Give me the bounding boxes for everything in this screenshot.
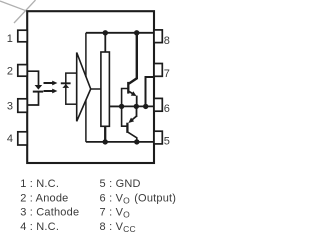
op-amp U1 triangle bbox=[77, 53, 91, 122]
svg-text:4: 4 bbox=[7, 133, 13, 145]
photodiode chip box bbox=[66, 73, 77, 104]
svg-text:2 : Anode: 2 : Anode bbox=[20, 192, 68, 204]
wire pin2 to LED anode bbox=[28, 71, 39, 85]
light arrow 1 bbox=[44, 82, 53, 84]
svg-text:1 : N.C.: 1 : N.C. bbox=[20, 178, 59, 190]
transistor Q1 base bar bbox=[127, 82, 129, 94]
pin 8 box bbox=[154, 30, 162, 43]
node dot base bus bbox=[119, 104, 124, 109]
Q2 collector bbox=[128, 132, 137, 142]
Q1 emitter with arrow bbox=[129, 91, 133, 93]
svg-text:3 : Cathode: 3 : Cathode bbox=[20, 207, 79, 219]
wire R1 tap to base bus bbox=[109, 105, 121, 107]
Q2 base bar bbox=[126, 123, 128, 133]
output wire to pin 6 bbox=[109, 105, 154, 107]
svg-text:3: 3 bbox=[7, 101, 13, 113]
corner ornament gray line 1 bbox=[0, 1, 28, 11]
amp GND tap wire bbox=[85, 100, 87, 142]
base bus vertical wire bbox=[122, 89, 128, 127]
node dot rail-Q2 bbox=[134, 139, 139, 144]
wire LED cathode to pin3 bbox=[28, 92, 39, 105]
Q1 collector bbox=[129, 33, 137, 84]
photodiode PD1 bar bbox=[61, 82, 71, 84]
node dot rail-R1 bbox=[103, 30, 108, 35]
LED cathode bar bbox=[33, 91, 43, 93]
package body bbox=[27, 11, 154, 163]
svg-text:8: 8 bbox=[164, 35, 170, 47]
Q1 emitter drop bbox=[136, 96, 138, 107]
transistor Q2 emitter drop bbox=[136, 106, 138, 117]
pin 6 box bbox=[154, 98, 162, 111]
node dot output-Q bbox=[134, 104, 139, 109]
top Vcc rail bbox=[86, 32, 154, 34]
svg-text:5 : GND: 5 : GND bbox=[100, 178, 141, 190]
bottom GND rail bbox=[86, 141, 154, 143]
node dot output-pin7 bbox=[143, 104, 148, 109]
wire amp output to R1 bbox=[90, 88, 101, 90]
light arrow 2 bbox=[44, 90, 53, 92]
photodiode PD1 triangle bbox=[62, 84, 69, 88]
wire pin7 drop bbox=[146, 77, 155, 106]
svg-text:4 : N.C.: 4 : N.C. bbox=[20, 221, 59, 233]
pin 3 box bbox=[18, 99, 27, 113]
resistor R1 bbox=[101, 52, 110, 126]
pin 1 box bbox=[18, 30, 27, 42]
svg-text:5: 5 bbox=[164, 136, 170, 148]
pin 2 box bbox=[18, 65, 27, 77]
pin 5 box bbox=[154, 131, 162, 144]
pin 7 box bbox=[154, 64, 162, 77]
wire R1 bottom stub bbox=[104, 126, 106, 142]
LED D1 triangle bbox=[35, 85, 43, 90]
amp Vcc tap wire bbox=[85, 33, 87, 77]
node dot rail-R1 bottom bbox=[103, 139, 108, 144]
pin 4 box bbox=[18, 132, 27, 145]
node dot rail-Q1 bbox=[134, 30, 139, 35]
corner ornament gray line 2 bbox=[14, 0, 36, 23]
svg-text:6: 6 bbox=[164, 103, 170, 115]
svg-text:2: 2 bbox=[7, 65, 13, 77]
svg-text:1: 1 bbox=[7, 33, 13, 45]
Q2 emitter with arrow bbox=[132, 116, 136, 120]
wire R1 top stub bbox=[104, 33, 106, 52]
svg-text:6 : VO (Output): 6 : VO (Output) bbox=[100, 192, 177, 205]
svg-text:7: 7 bbox=[164, 68, 170, 80]
